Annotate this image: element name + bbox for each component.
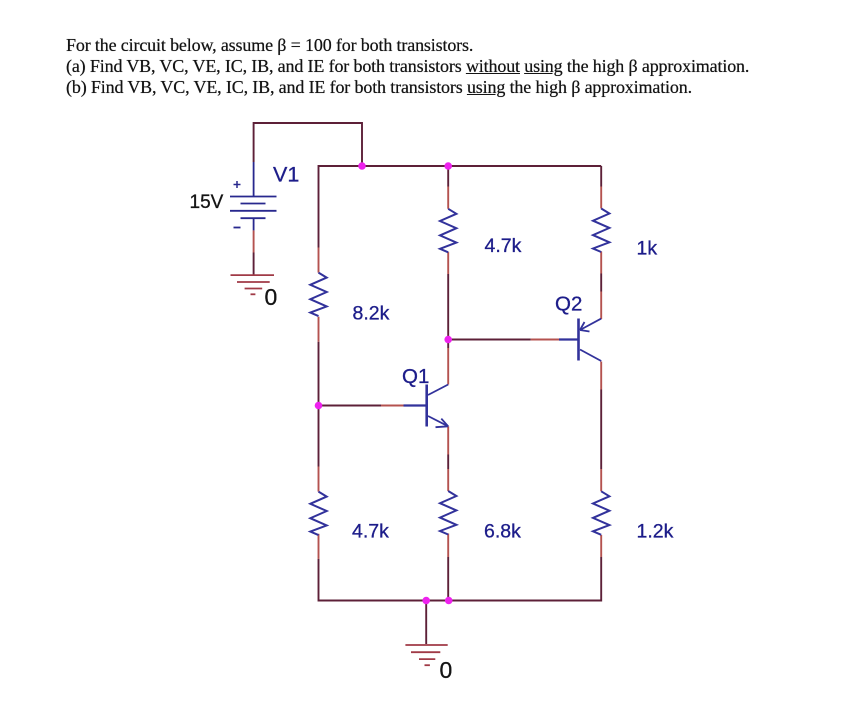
svg-text:4.7k: 4.7k — [352, 521, 389, 543]
svg-text:0: 0 — [265, 284, 278, 310]
svg-text:1.2k: 1.2k — [637, 521, 674, 543]
svg-text:V1: V1 — [273, 163, 299, 187]
svg-text:0: 0 — [440, 657, 453, 683]
svg-text:15V: 15V — [190, 192, 224, 213]
svg-text:Q1: Q1 — [402, 365, 429, 388]
svg-text:1k: 1k — [637, 238, 658, 260]
svg-text:4.7k: 4.7k — [485, 235, 522, 257]
svg-text:Q2: Q2 — [555, 293, 582, 316]
svg-text:8.2k: 8.2k — [353, 303, 390, 325]
svg-text:6.8k: 6.8k — [484, 521, 521, 543]
